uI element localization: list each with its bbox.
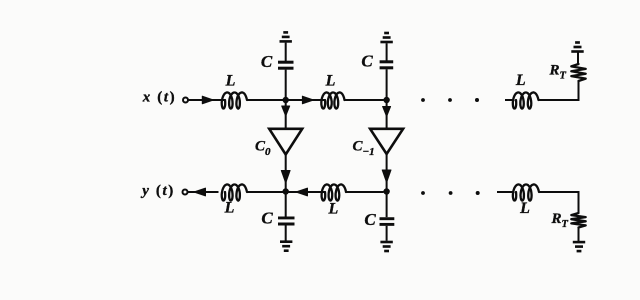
svg-text:y (t): y (t) <box>140 183 175 199</box>
arrowhead down into amp C-1 <box>383 107 391 117</box>
svg-text:L: L <box>224 200 235 217</box>
ground (col1 bottom) <box>280 240 292 243</box>
svg-text:L: L <box>325 73 336 90</box>
inductor L (top 1) <box>222 92 247 108</box>
terminal x(t) <box>183 98 188 103</box>
ground (col2 bottom) <box>380 241 392 244</box>
svg-text:L: L <box>519 200 530 217</box>
ground (bottom right) <box>573 241 585 244</box>
wire amp C-1 to node D <box>386 154 388 189</box>
wire node B down to amp C-1 <box>386 100 388 128</box>
arrowhead right into L (top-left) <box>202 96 213 104</box>
svg-text:L: L <box>225 73 236 90</box>
wire cap to ground (col1 bottom) <box>285 225 287 240</box>
wire L to RT corner (bottom) <box>539 191 579 193</box>
inductor L (bottom 2) <box>322 184 346 200</box>
wire cap to node A <box>285 70 287 98</box>
wire L2 to node D (bottom) <box>346 191 384 193</box>
wire lead into bottom coil 2 <box>318 191 326 193</box>
capacitor C (col2 top) <box>380 60 394 63</box>
capacitor C (col1 top) <box>278 61 294 64</box>
svg-text:C: C <box>364 210 376 229</box>
wire RT to ground (top) <box>577 53 579 65</box>
wire stub before top-right L <box>505 99 515 101</box>
arrowhead left toward y(t) <box>194 188 206 196</box>
wire lead into top-left coil <box>218 99 226 101</box>
svg-text:L: L <box>328 201 339 218</box>
resistor RT (top) <box>571 64 585 81</box>
svg-text:x (t): x (t) <box>142 89 176 105</box>
svg-text:C: C <box>261 52 273 71</box>
svg-text:L: L <box>515 72 526 89</box>
op-amp C-1 triangle <box>370 129 403 154</box>
wire amp C0 to node C <box>285 155 287 190</box>
svg-text:C: C <box>361 52 373 71</box>
ellipsis dots bottom <box>421 191 425 195</box>
inductor L (bottom 1) <box>222 184 247 200</box>
wire node A to L2 <box>286 99 318 101</box>
wire x(t) to L <box>188 99 218 101</box>
wire L to node A <box>247 99 284 101</box>
svg-text:C0: C0 <box>255 139 271 159</box>
node B (top tap 2) <box>383 97 389 103</box>
capacitor C (col1 bottom) <box>278 216 295 219</box>
svg-text:RT: RT <box>549 63 567 82</box>
op-amp C0 triangle <box>269 129 302 155</box>
svg-text:C−1: C−1 <box>353 139 375 159</box>
wire stub before bottom-right L <box>497 191 515 193</box>
wire ground to cap (col2 top) <box>386 43 388 60</box>
wire node D to cap (col2 bottom) <box>386 192 388 217</box>
wire node A down to amp C0 <box>285 100 287 128</box>
ground (col2 top, inverted) <box>380 41 392 44</box>
ellipsis dots top <box>421 98 425 102</box>
wire lead into top coil 2 <box>318 99 326 101</box>
node C (bottom tap 1) <box>283 188 289 194</box>
wire L to RT corner (top) <box>538 99 579 101</box>
wire L to node C <box>247 191 284 193</box>
inductor L (bottom right) <box>513 184 539 200</box>
wire RT to ground (bottom) <box>578 228 580 242</box>
ground (top right, inverted) <box>571 50 583 53</box>
ground (col1 top, inverted) <box>280 40 292 43</box>
node D (bottom tap 2) <box>383 188 389 194</box>
inductor L (top 2) <box>321 92 344 108</box>
capacitor C (col2 bottom) <box>380 217 395 220</box>
wire node C to cap (col1 bottom) <box>285 192 287 217</box>
arrowhead down into node C <box>281 171 290 184</box>
arrowhead down into node D <box>382 170 391 183</box>
wire node C to L2 (bottom) <box>286 191 318 193</box>
wire y(t) to L <box>188 191 219 193</box>
arrowhead right into L2 <box>302 96 313 104</box>
inductor L (top right) <box>513 92 539 108</box>
node A (top tap 1) <box>283 97 289 103</box>
arrowhead down into amp C0 <box>282 106 290 116</box>
resistor RT (bottom) <box>571 213 585 228</box>
wire L2 to node B <box>344 99 384 101</box>
wire ground to cap (col1 top) <box>285 43 287 61</box>
terminal y(t) <box>183 190 188 195</box>
wire cap to ground (col2 bottom) <box>386 226 388 241</box>
wire cap to node B <box>386 69 388 97</box>
svg-text:RT: RT <box>551 211 569 230</box>
arrowhead left into node C <box>296 188 308 196</box>
svg-text:C: C <box>261 209 273 228</box>
